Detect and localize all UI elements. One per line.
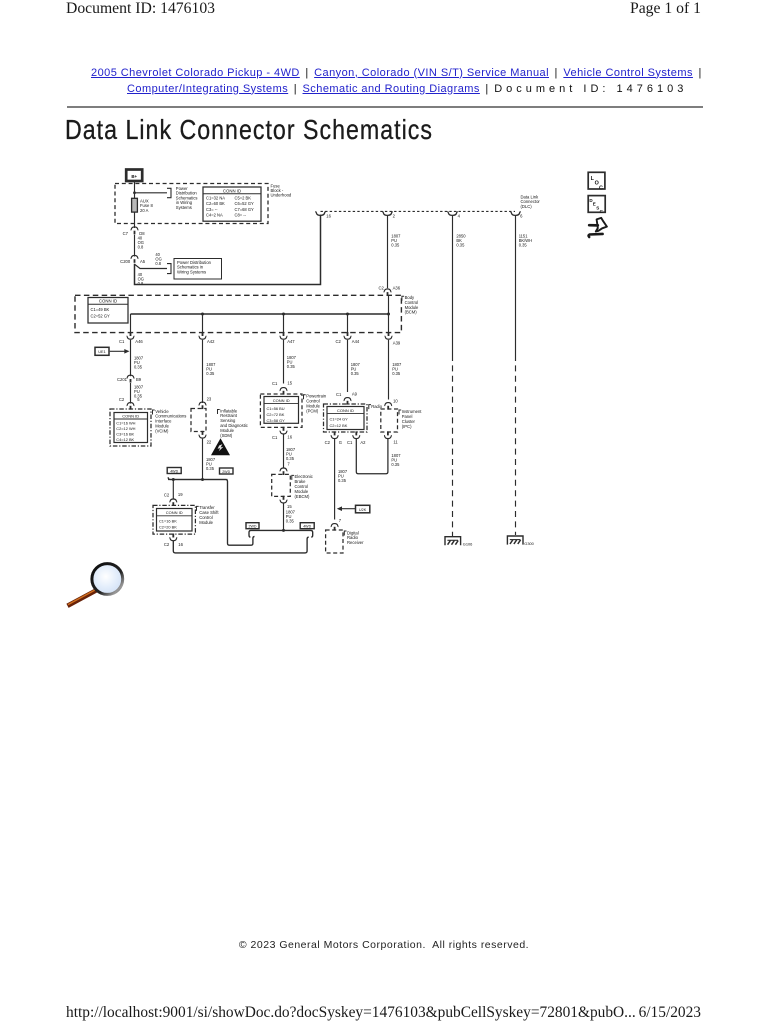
svg-text:0.35: 0.35 <box>134 364 143 369</box>
powertrain control module box <box>260 394 302 427</box>
wire dashed to G300 <box>515 355 517 535</box>
svg-text:0.8: 0.8 <box>155 261 161 266</box>
VCIM label <box>153 409 187 434</box>
CONN ID table VCIM <box>114 413 148 443</box>
svg-text:C2: C2 <box>378 285 384 290</box>
svg-text:0.35: 0.35 <box>338 478 347 483</box>
bracket power distribution note <box>167 188 171 197</box>
wire label 40 OG 0.8 branch <box>155 252 161 266</box>
svg-text:CONN ID: CONN ID <box>99 299 117 304</box>
svg-text:C1=32 NA: C1=32 NA <box>206 195 225 200</box>
ground G106 <box>445 537 472 547</box>
svg-text:C7=68 GY: C7=68 GY <box>235 207 254 212</box>
svg-text:0.35: 0.35 <box>456 243 465 248</box>
wire dashed to G106 <box>452 355 454 536</box>
svg-text:A47: A47 <box>287 339 295 344</box>
svg-text:CONN ID: CONN ID <box>122 414 139 419</box>
svg-text:(IPC): (IPC) <box>402 424 412 429</box>
svg-text:A39: A39 <box>393 341 401 346</box>
wire label 40 OG 0.8 <box>138 236 144 250</box>
svg-text:C: C <box>599 185 603 191</box>
svg-text:C6=52 GY: C6=52 GY <box>235 201 254 206</box>
svg-text:Radio: Radio <box>371 404 383 409</box>
EBCM label <box>292 474 313 499</box>
digital radio receiver box <box>326 530 343 553</box>
fuse label <box>140 198 153 213</box>
BCM pin C2 A44 <box>335 332 359 344</box>
fuse AUX 20A <box>132 198 138 212</box>
wire radio A2 to IPC 11 <box>356 439 388 474</box>
svg-text:C2=20 BK: C2=20 BK <box>159 524 177 529</box>
wire label 1807 PU 0.35 <box>134 355 144 369</box>
wire label 2850 BK 0.35 <box>456 234 466 248</box>
wire branch to power distribution box <box>135 264 168 268</box>
svg-text:0.35: 0.35 <box>392 371 401 376</box>
svg-text:C1=16 WH: C1=16 WH <box>116 421 135 426</box>
wire label 1807 PU 0.35 <box>391 453 401 467</box>
svg-text:7: 7 <box>339 518 342 523</box>
svg-text:0.35: 0.35 <box>206 466 215 471</box>
BCM pin C1 A46 <box>119 332 143 344</box>
junction 2WD 4WD hooks <box>249 529 313 537</box>
IPC pin 10 <box>384 399 398 410</box>
svg-text:4WD: 4WD <box>303 525 311 529</box>
2WD option tag lower <box>246 523 259 529</box>
svg-text:0.35: 0.35 <box>206 371 215 376</box>
BCM internal bus <box>131 313 391 316</box>
svg-text:C1: C1 <box>119 339 125 344</box>
DLC pin 16 <box>315 212 331 219</box>
wire BCM A46 to VCIM <box>130 340 132 376</box>
svg-text:G: G <box>339 440 342 445</box>
svg-text:C2: C2 <box>164 492 170 497</box>
wire label 40 OG 0.8 below C200 <box>138 272 144 286</box>
wire fuse to C7 <box>134 212 136 228</box>
wire label 1807 PU 0.35 <box>391 234 401 248</box>
wire label 1807 PU 0.35 <box>206 362 216 376</box>
transfer case pin C2 16 <box>164 534 184 548</box>
wire transfer case to 4WD hook <box>173 537 308 553</box>
svg-text:A36: A36 <box>393 285 401 290</box>
svg-text:0.35: 0.35 <box>519 243 528 248</box>
PCM label <box>304 394 327 414</box>
svg-text:2: 2 <box>393 213 396 218</box>
svg-text:CONN ID: CONN ID <box>166 510 183 515</box>
vehicle communications interface module box <box>110 409 151 446</box>
svg-text:C2=72 BK: C2=72 BK <box>267 412 285 417</box>
wire C201 to VCIM <box>130 383 132 404</box>
svg-text:C1=49 BK: C1=49 BK <box>91 307 110 312</box>
BCM bus drops <box>131 314 348 333</box>
electronic brake control module box <box>272 474 291 496</box>
transfer case pin C2 19 <box>164 492 183 506</box>
svg-text:A46: A46 <box>135 339 143 344</box>
svg-text:C2: C2 <box>325 440 331 445</box>
svg-text:CONN ID: CONN ID <box>337 408 354 413</box>
svg-text:G106: G106 <box>463 541 473 546</box>
svg-text:Receiver: Receiver <box>347 540 364 545</box>
CONN ID table PCM <box>264 397 299 424</box>
UE1 option tag <box>95 347 130 355</box>
DESC icon <box>588 196 605 215</box>
IPC label <box>399 409 422 429</box>
BCM pin A39 <box>385 332 401 346</box>
wire label 1807 PU 0.35 <box>206 457 216 471</box>
wire DLC pin 6 to ground <box>515 216 517 355</box>
data link connector dashed line <box>321 210 516 212</box>
wire label 1807 PU 0.35 <box>286 447 296 461</box>
svg-text:Module: Module <box>199 520 213 525</box>
svg-text:C2=12 BK: C2=12 BK <box>330 423 348 428</box>
svg-text:A9: A9 <box>352 391 358 396</box>
connector C201 <box>117 375 142 382</box>
svg-text:CONN ID: CONN ID <box>223 188 241 193</box>
note power distribution schematics <box>176 186 198 210</box>
DLC label <box>521 195 541 209</box>
EBCM pin 7 <box>280 462 291 475</box>
svg-text:C1: C1 <box>272 381 278 386</box>
radio pin C2 G <box>325 431 342 445</box>
wire label 1807 PU 0.35 <box>392 362 402 376</box>
svg-text:C1: C1 <box>347 440 353 445</box>
wire label 1807 PU 0.35 below C201 <box>134 385 144 399</box>
ground G300 <box>507 536 534 546</box>
svg-text:A44: A44 <box>352 339 360 344</box>
magnifier icon <box>68 564 123 606</box>
svg-text:C1=56 BU: C1=56 BU <box>267 406 285 411</box>
svg-text:C3= --: C3= -- <box>206 207 218 212</box>
svg-text:C1: C1 <box>272 435 278 440</box>
svg-text:C7: C7 <box>123 231 129 236</box>
svg-text:4: 4 <box>458 213 461 218</box>
svg-text:19: 19 <box>178 492 183 497</box>
wire PCM to EBCM <box>283 435 285 469</box>
VCIM pin C2 5 <box>119 397 140 410</box>
svg-text:0.35: 0.35 <box>391 462 400 467</box>
svg-text:A42: A42 <box>207 339 215 344</box>
svg-text:Systems: Systems <box>176 205 192 210</box>
svg-text:C4=2 NA: C4=2 NA <box>206 213 223 218</box>
bracket power distribution box <box>167 264 171 274</box>
wire BCM A47 to PCM <box>283 340 285 384</box>
SIR caution triangle <box>211 438 230 455</box>
svg-text:7: 7 <box>287 462 290 467</box>
4WD option tag <box>167 468 181 474</box>
svg-text:23: 23 <box>207 397 212 402</box>
wire label 1807 PU 0.35 <box>286 509 296 523</box>
svg-text:Wiring Systems: Wiring Systems <box>177 269 206 274</box>
svg-text:(PCM): (PCM) <box>306 408 319 413</box>
svg-text:(VCIM): (VCIM) <box>155 428 169 433</box>
SDM label <box>218 408 248 438</box>
svg-text:C1=24 GY: C1=24 GY <box>330 416 349 421</box>
svg-text:U2K: U2K <box>359 508 367 512</box>
BCM pin A42 <box>199 332 216 344</box>
svg-text:C201: C201 <box>117 377 128 382</box>
svg-text:(DLC): (DLC) <box>521 204 533 209</box>
svg-text:C2=52 GY: C2=52 GY <box>91 314 110 319</box>
svg-text:6: 6 <box>520 213 523 218</box>
wire branch to power distribution note <box>133 191 167 194</box>
svg-text:C2: C2 <box>119 397 125 402</box>
svg-text:C3=58 GY: C3=58 GY <box>267 418 286 423</box>
svg-text:16: 16 <box>178 542 183 547</box>
svg-text:G300: G300 <box>524 541 534 546</box>
svg-text:22: 22 <box>207 439 212 444</box>
svg-text:C200: C200 <box>120 259 131 264</box>
wire label 1807 PU 0.35 <box>287 355 297 369</box>
svg-text:Underhood: Underhood <box>271 192 292 197</box>
svg-text:2WD: 2WD <box>249 525 257 529</box>
svg-text:16: 16 <box>287 435 292 440</box>
svg-text:0.8: 0.8 <box>138 245 144 250</box>
BCM pin C2 A36 <box>378 285 400 296</box>
svg-text:C8= --: C8= -- <box>235 213 247 218</box>
fuse block underhood box <box>115 184 268 224</box>
DRR pin 7 <box>331 518 342 531</box>
DLC pin 6 <box>510 212 523 219</box>
svg-text:A5: A5 <box>140 259 146 264</box>
svg-text:16: 16 <box>326 213 331 218</box>
svg-text:C1: C1 <box>336 392 342 397</box>
CONN ID table BCM <box>88 298 128 324</box>
BCM through wire A36-A39 <box>388 295 390 333</box>
wire C200 down and right to DLC pin 16 <box>135 215 321 285</box>
svg-text:B+: B+ <box>131 174 137 179</box>
svg-text:0.35: 0.35 <box>391 243 400 248</box>
svg-text:(EBCM): (EBCM) <box>295 494 310 499</box>
wire EBCM to junction <box>283 503 285 530</box>
svg-text:0.35: 0.35 <box>351 371 360 376</box>
fuse block label <box>271 183 292 197</box>
svg-text:UE1: UE1 <box>98 350 105 354</box>
wire B+ to fuse <box>134 181 136 198</box>
svg-text:C4=12 BK: C4=12 BK <box>116 437 134 442</box>
junction split 4WD 2WD <box>168 477 255 545</box>
svg-text:0.35: 0.35 <box>286 456 295 461</box>
wire BCM A42 to SDM <box>202 340 204 403</box>
DRR label <box>344 530 364 545</box>
CONN ID table transfer case <box>157 509 193 532</box>
svg-text:C2=12 WH: C2=12 WH <box>116 426 135 431</box>
wire BCM A44 to radio <box>347 340 349 392</box>
battery feed B+ <box>126 170 142 182</box>
svg-text:11: 11 <box>393 440 398 445</box>
svg-text:10: 10 <box>393 399 398 404</box>
SDM pin 22 <box>199 431 212 445</box>
4WD option tag lower <box>300 523 314 529</box>
IPC pin 11 <box>384 431 398 444</box>
PCM pin C1 15 <box>272 380 293 394</box>
BCM pin A47 <box>280 332 296 344</box>
svg-text:2WD: 2WD <box>222 470 230 474</box>
svg-text:C2=60 BK: C2=60 BK <box>206 201 225 206</box>
transfer case shift control module box <box>153 505 195 534</box>
radio pin C1 A9 <box>336 391 358 404</box>
DLC pin 2 <box>382 212 395 219</box>
radio box <box>324 404 368 432</box>
wire label 1151 BK/WH 0.35 <box>519 234 532 248</box>
svg-text:4WD: 4WD <box>170 469 178 473</box>
LOC icon <box>588 172 605 191</box>
EBCM pin 15 <box>280 496 293 509</box>
wire DLC pin2 to BCM <box>387 216 389 288</box>
svg-text:C1=16 BK: C1=16 BK <box>159 518 177 523</box>
svg-text:C2: C2 <box>335 339 341 344</box>
wire label 1807 PU 0.35 <box>351 362 361 376</box>
radio label <box>369 404 383 409</box>
radio pin C1 A2 <box>347 431 366 445</box>
svg-text:C2: C2 <box>164 542 170 547</box>
wire label 1807 PU 0.35 <box>338 469 348 483</box>
power distribution schematics box <box>174 259 222 280</box>
svg-text:20 A: 20 A <box>140 208 149 213</box>
svg-text:(BCM): (BCM) <box>405 310 418 315</box>
U2K option tag <box>337 505 370 513</box>
svg-text:B9: B9 <box>136 377 142 382</box>
wire split to transfer case <box>172 480 174 500</box>
PCM pin C1 16 <box>272 427 293 440</box>
svg-text:(SDM): (SDM) <box>220 433 233 438</box>
svg-text:0.35: 0.35 <box>286 518 295 523</box>
wire DLC pin 4 to ground <box>452 216 454 355</box>
instrument panel cluster box <box>381 409 398 432</box>
wire C7 to C200 <box>134 235 136 257</box>
connector C7 <box>123 227 146 236</box>
svg-text:15: 15 <box>287 380 292 385</box>
DLC pin 4 <box>447 212 460 219</box>
svg-text:C3=16 BK: C3=16 BK <box>116 432 134 437</box>
svg-text:C5=2 BK: C5=2 BK <box>235 195 252 200</box>
CONN ID table fuse block <box>203 187 261 221</box>
wire radio G to digital radio receiver <box>334 439 336 520</box>
2WD option tag <box>220 468 234 474</box>
connector C200 <box>120 255 146 263</box>
svg-text:A2: A2 <box>360 440 366 445</box>
CONN ID table radio <box>327 407 364 430</box>
svg-text:CONN ID: CONN ID <box>273 398 290 403</box>
wire SDM to split <box>202 439 204 480</box>
svg-text:0.35: 0.35 <box>287 364 296 369</box>
inflatable restraint SDM box <box>191 409 206 432</box>
body control module box <box>75 295 401 332</box>
jump arrow icon <box>589 218 607 237</box>
SDM pin 23 <box>199 397 212 410</box>
wire BCM A39 to IPC <box>388 340 390 400</box>
transfer case label <box>197 505 220 525</box>
BCM label <box>402 295 419 315</box>
